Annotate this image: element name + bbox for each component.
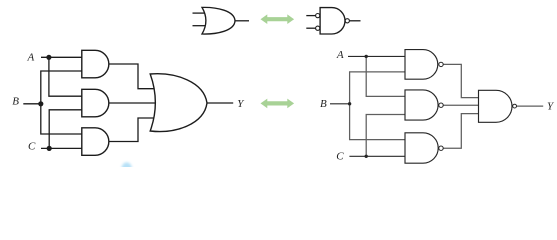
bubble U0 input 1 (316, 14, 320, 18)
bubble U0 output (345, 19, 349, 23)
junction dot A (right) (365, 55, 368, 58)
wire Y output (right) (516, 105, 543, 107)
wire OR1 input 1 (193, 12, 207, 14)
bubble N3 output (439, 146, 443, 150)
wire OR1 output (235, 20, 249, 22)
junction dot A (46, 55, 51, 60)
wire G3 output to OR (109, 118, 158, 142)
svg-text:A: A (336, 49, 344, 61)
wire C riser to N2 (366, 115, 405, 157)
wire N3 output to U4 (443, 114, 478, 149)
nand-gate N1 (A,B) (405, 50, 438, 80)
junction dot C (right) (365, 155, 368, 158)
equivalence arrow (middle) (261, 99, 295, 109)
wire A input (right) (348, 55, 405, 57)
wire U0 output (350, 20, 361, 22)
wire B bus vertical (41, 71, 82, 134)
nand-gate U0 (negative-input AND body) (320, 8, 345, 34)
wire G2 output to OR (109, 102, 162, 104)
nand-gate N2 (A,C) (405, 90, 438, 120)
and-gate G3 (B·C) (82, 128, 109, 156)
svg-text:A: A (27, 52, 35, 64)
wire C riser to G2 (49, 110, 82, 149)
bubble N2 output (439, 103, 443, 107)
wire Y output (207, 102, 233, 104)
wire A riser to N2 (366, 56, 405, 96)
wire U0 input 1 (306, 15, 315, 17)
wire OR1 input 2 (193, 25, 207, 27)
bubble U4 output (513, 104, 517, 108)
nand-gate U4 (output NAND) (479, 90, 513, 122)
wire C input (right) (349, 155, 405, 157)
junction dot C (47, 146, 52, 151)
junction dot B (38, 101, 43, 106)
equivalence arrow (top) (261, 14, 295, 24)
cursor artifact (light blue blob) (122, 162, 132, 174)
and-gate G1 (A·B) (82, 50, 109, 78)
svg-text:C: C (336, 151, 344, 163)
bubble U0 input 2 (316, 26, 320, 30)
nand-gate N3 (B,C) (405, 133, 438, 163)
wire N1 output to U4 (443, 64, 478, 97)
wire C input (41, 147, 82, 149)
and-gate G2 (A·C) (82, 89, 109, 117)
wire A riser to G2 (49, 57, 82, 96)
wire G1 output to OR (109, 64, 158, 89)
wire B input (right) (330, 103, 350, 105)
or-gate G4 (3-input OR) (150, 74, 207, 132)
wire N2 output to U4 (443, 104, 478, 106)
wire B bus vertical (right) (350, 72, 405, 140)
junction dot B (right) (348, 102, 351, 105)
wire A input (41, 56, 82, 58)
bubble N1 output (439, 62, 443, 66)
wire B input (23, 103, 41, 105)
or-gate OR1 (2-input OR) (202, 7, 235, 34)
svg-text:B: B (12, 96, 19, 108)
svg-text:C: C (28, 141, 36, 153)
svg-text:B: B (320, 98, 327, 110)
wire U0 input 2 (306, 27, 315, 29)
